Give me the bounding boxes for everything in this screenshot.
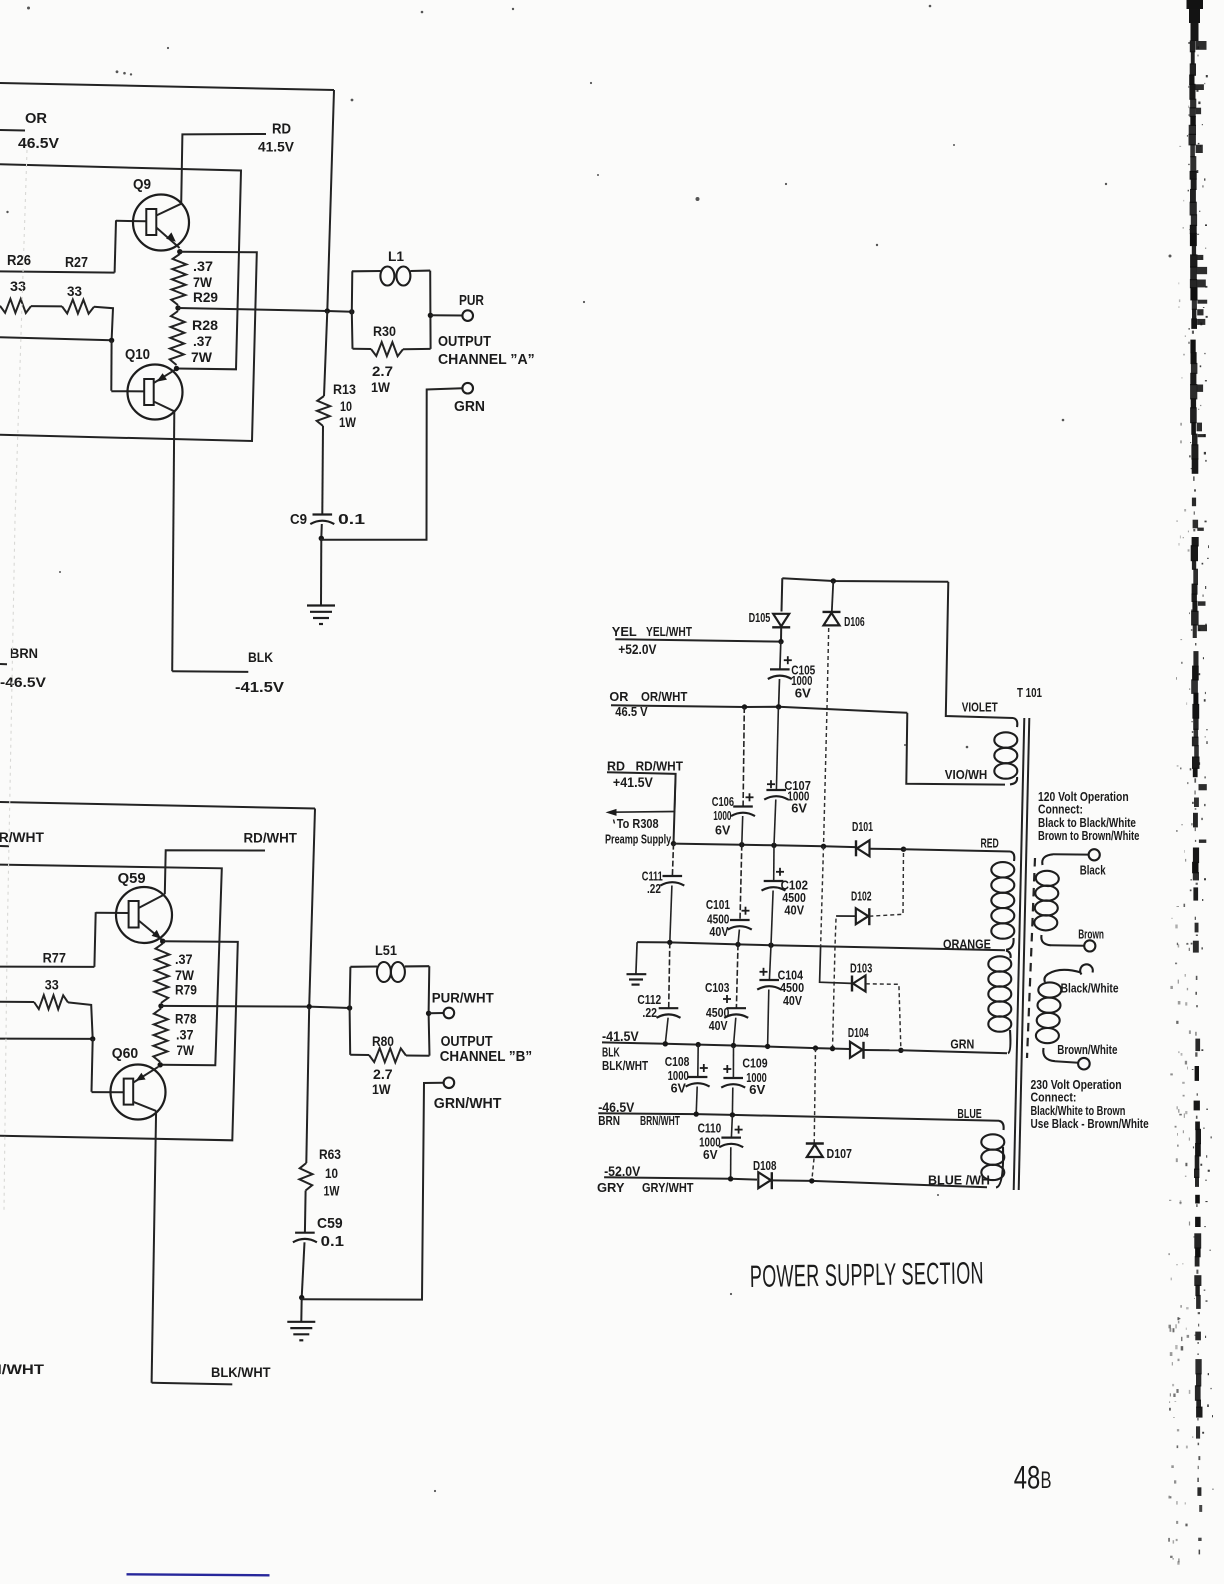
- wire: Q59 base vertical: [94, 912, 95, 967]
- svg-text:R79: R79: [175, 982, 197, 998]
- resistor R13 (10 1W): [317, 396, 331, 426]
- label 40V (C104): [783, 994, 802, 1008]
- svg-text:C101: C101: [706, 899, 730, 912]
- terminal Brown/White: [1078, 1058, 1090, 1070]
- svg-text:BLK/WHT: BLK/WHT: [211, 1364, 271, 1380]
- winding: red/orange secondary lower: [988, 951, 1011, 1054]
- scan edge band (right margin): [1168, 0, 1213, 1565]
- wire: C103 lower stem: [734, 1018, 736, 1046]
- label 6V (C108): [671, 1082, 687, 1096]
- wire: C101 lower stem: [738, 930, 739, 945]
- label .37 (R29): [193, 259, 213, 275]
- resistor R26: [0, 299, 31, 313]
- note: 120 volt operation line 1: [1038, 790, 1129, 804]
- svg-text:R78: R78: [175, 1010, 197, 1026]
- wire: Q59 emitter wrap-around to left edge: [0, 941, 238, 1140]
- svg-text:10: 10: [340, 399, 352, 415]
- wire: +41.5V bus: [674, 844, 856, 848]
- svg-text:Connect:: Connect:: [1031, 1089, 1077, 1104]
- node: D106 top junction: [831, 578, 836, 583]
- label D104: [848, 1027, 869, 1041]
- wire: RD/WHT feed: [165, 850, 265, 894]
- label L1: [388, 248, 404, 264]
- label -41.5V (ps): [602, 1029, 639, 1045]
- svg-text:T 101: T 101: [1017, 687, 1042, 700]
- label CHANNEL A: [438, 352, 535, 368]
- node: R79/R78 output junction: [158, 1003, 163, 1008]
- label BLK/WHT: [211, 1364, 271, 1380]
- label 7W (R79): [175, 967, 194, 983]
- wire: ground stem B: [300, 1298, 302, 1322]
- label 1000 (C109): [746, 1072, 767, 1086]
- svg-text:B: B: [1041, 1467, 1052, 1494]
- svg-text:-41.5V: -41.5V: [235, 680, 284, 696]
- svg-text:+41.5V: +41.5V: [613, 774, 653, 790]
- svg-text:Brown/White: Brown/White: [1057, 1044, 1117, 1057]
- wire: junction to Q60 base: [92, 1039, 93, 1092]
- label RD/WHT: [244, 830, 298, 845]
- svg-text:BRN: BRN: [598, 1115, 620, 1128]
- label 1W (R30): [371, 379, 390, 395]
- resistor R63 (10 1W): [299, 1163, 312, 1191]
- label 4500 (C102): [782, 892, 805, 905]
- label D101: [852, 821, 873, 835]
- svg-text:2.7: 2.7: [372, 364, 393, 379]
- label -46.5V (ps): [598, 1099, 634, 1115]
- svg-text:L1: L1: [388, 248, 404, 264]
- svg-text:R27: R27: [65, 253, 88, 270]
- node: -46.5/C108 junction: [694, 1111, 699, 1116]
- note: 230 volt operation line 3: [1031, 1105, 1126, 1119]
- svg-text:1W: 1W: [371, 379, 390, 395]
- svg-text:OR: OR: [609, 689, 628, 704]
- svg-text:C109: C109: [742, 1058, 767, 1071]
- label PUR/WHT: [432, 990, 495, 1005]
- wire: C109 upper stem: [732, 1046, 734, 1079]
- label 33 (R26 value): [10, 279, 26, 295]
- wire: D108 cathode to BLUE/WH lead: [773, 1180, 987, 1187]
- svg-text:VIOLET: VIOLET: [962, 702, 998, 715]
- label 1000 (C108): [668, 1070, 689, 1083]
- diode D108: [758, 1172, 771, 1188]
- label C107: [784, 778, 811, 793]
- svg-text:C59: C59: [317, 1216, 343, 1233]
- label C111: [642, 870, 663, 884]
- wire: channel B right boundary: [309, 809, 315, 1007]
- label C110: [698, 1123, 722, 1136]
- svg-text:D103: D103: [850, 962, 872, 976]
- label 1000 (C105): [791, 675, 812, 688]
- wire: C104 upper stem: [769, 945, 771, 980]
- node: -41.5/D107 junction: [813, 1045, 818, 1050]
- note: 120 volt operation line 2: [1038, 802, 1083, 816]
- svg-text:.37: .37: [193, 333, 212, 349]
- wire: C109 lower stem: [731, 1088, 733, 1115]
- wire: R77 to bias node: [68, 1002, 93, 1039]
- wire: feedback line to R28 junction: [0, 164, 241, 369]
- wire: C103 upper stem: [736, 944, 738, 1008]
- wire: OR/WHT tick: [0, 845, 9, 847]
- label +41.5V: [613, 774, 653, 790]
- svg-text:BRN: BRN: [10, 646, 38, 662]
- capacitor C112 (.22): [659, 1007, 679, 1009]
- wire: RED winding lead: [904, 849, 1011, 851]
- wire: Q9 emitter wrap-around to left edge: [0, 252, 257, 441]
- svg-text:7W: 7W: [193, 274, 212, 290]
- wire: OR lead-in tick (46.5V): [0, 129, 25, 132]
- label 1000 (C110): [699, 1136, 720, 1149]
- label 46.5V: [18, 135, 60, 152]
- wire: L51 left branch: [349, 967, 352, 1055]
- wire: preamp rail upper: [675, 774, 676, 812]
- svg-text:PUR: PUR: [459, 292, 484, 309]
- label OR/WHT (edge): [0, 829, 44, 845]
- svg-text:.37: .37: [193, 259, 213, 275]
- wire: D107 lower: [812, 1159, 814, 1181]
- svg-text:BRN/WHT: BRN/WHT: [0, 1362, 45, 1378]
- label Black: [1080, 864, 1107, 877]
- wire: C108 upper stem: [697, 1045, 699, 1077]
- svg-text:C112: C112: [637, 994, 661, 1007]
- svg-text:7W: 7W: [191, 349, 213, 365]
- wire: Q60 collector down: [152, 1111, 157, 1383]
- node: bus/C107 junction: [771, 843, 776, 848]
- inductor L1: [352, 267, 430, 286]
- resistor R29 (.37 7W): [171, 254, 186, 305]
- node: output line / L1 junction: [349, 309, 354, 314]
- svg-text:BLK: BLK: [602, 1046, 620, 1060]
- label 2.7 (R30): [372, 364, 393, 379]
- wire: D103 rail from D106 line: [820, 947, 851, 984]
- svg-text:OUTPUT: OUTPUT: [438, 332, 491, 349]
- label D106: [844, 616, 865, 630]
- capacitor C111 (.22): [663, 875, 683, 877]
- svg-text:Q59: Q59: [118, 871, 146, 887]
- svg-text:R77: R77: [43, 950, 66, 966]
- wire: C111 to ground bus: [670, 886, 672, 943]
- wire: -46.5V BRN bus to BLUE lead: [598, 1113, 999, 1121]
- svg-text:D106: D106: [844, 616, 865, 630]
- svg-text:6V: 6V: [703, 1148, 718, 1162]
- wire: C112 stem: [669, 942, 670, 1008]
- diode D104: [850, 1042, 863, 1058]
- label PUR: [459, 292, 484, 309]
- svg-text:BLK/WHT: BLK/WHT: [602, 1060, 648, 1073]
- label OUTPUT (A): [438, 332, 491, 349]
- terminal Black: [1089, 849, 1100, 860]
- capacitor C104 (4500 40V): [759, 979, 779, 981]
- label T 101: [1017, 687, 1042, 700]
- svg-text:1W: 1W: [372, 1081, 391, 1097]
- label YEL/WHT: [646, 625, 693, 639]
- wire: C107 lower stem: [774, 800, 776, 846]
- svg-text:RD: RD: [607, 758, 625, 773]
- svg-text:+52.0V: +52.0V: [618, 641, 657, 657]
- wire: junction to Q10 base: [110, 340, 112, 391]
- node: output terminal junction B: [426, 1011, 431, 1016]
- wire: C112 lower stem: [665, 1018, 668, 1044]
- node: Q9 emitter junction: [177, 249, 182, 254]
- svg-text:Preamp Supply: Preamp Supply: [605, 833, 672, 847]
- label D105: [749, 612, 771, 626]
- label 41.5V: [258, 138, 295, 154]
- wire: rail down to R63: [306, 1007, 309, 1163]
- ground (channel A): [307, 604, 335, 606]
- label Brown: [1078, 928, 1104, 942]
- diode D105: [773, 614, 789, 627]
- wire: Q10 collector down: [172, 411, 174, 671]
- polarity + (C102): [776, 871, 784, 873]
- label CHANNEL B: [440, 1048, 532, 1065]
- wire: D102 rail from -41.5V bus: [833, 916, 837, 1049]
- node: ground-bus/C101 junction: [735, 942, 740, 947]
- svg-text:Black/White: Black/White: [1061, 983, 1119, 996]
- svg-text:R63: R63: [319, 1146, 341, 1162]
- label C105: [791, 665, 815, 678]
- terminal PUR/WHT: [444, 1008, 455, 1019]
- label 1000 (C107): [787, 791, 809, 804]
- svg-text:2.7: 2.7: [373, 1066, 393, 1082]
- capacitor C59 (0.1): [295, 1232, 315, 1234]
- wire: -41.5V bus: [602, 1042, 850, 1049]
- note: 120 volt operation line 3: [1038, 817, 1136, 830]
- svg-text:Use Black - Brown/White: Use Black - Brown/White: [1031, 1117, 1150, 1132]
- wire: L1 right branch: [429, 271, 431, 349]
- svg-text:1W: 1W: [339, 414, 356, 430]
- node: -41.5/C108 junction: [696, 1042, 701, 1047]
- polarity + (C104): [760, 971, 768, 973]
- label RED: [981, 837, 999, 851]
- svg-text:41.5V: 41.5V: [258, 138, 295, 154]
- transistor Q60: [111, 1065, 166, 1120]
- transistor Q9: [133, 195, 189, 251]
- wire: Q9 base vertical: [115, 220, 116, 272]
- label BRN (ps): [598, 1115, 620, 1128]
- svg-text:VIO/WH: VIO/WH: [945, 767, 988, 782]
- label D108: [753, 1160, 776, 1173]
- svg-text:.37: .37: [175, 951, 193, 967]
- wire: D106 cathode from top line: [832, 581, 834, 612]
- winding: primary 2 (Black/White-Brown/White): [1036, 970, 1081, 1063]
- svg-text:46.5V: 46.5V: [18, 135, 60, 152]
- svg-text:6V: 6V: [715, 824, 731, 838]
- terminal Brown: [1084, 940, 1095, 951]
- svg-text:1W: 1W: [324, 1183, 340, 1199]
- label +52.0V: [618, 641, 657, 657]
- label GRY: [597, 1180, 625, 1195]
- wire: channel A top boundary: [0, 83, 334, 90]
- node: ground-bus/C111 junction: [667, 940, 672, 945]
- label C59: [317, 1216, 343, 1233]
- wire: feedback line to R78 junction: [0, 865, 222, 1066]
- node: bus/D106-rail junction: [821, 844, 826, 849]
- label 33 (R27 value): [67, 284, 82, 299]
- svg-text:OR/WHT: OR/WHT: [641, 690, 688, 705]
- wire: bias line from left edge: [0, 337, 112, 340]
- node: Q59 emitter junction: [160, 939, 165, 944]
- svg-text:RD: RD: [272, 120, 291, 137]
- wire: preamp supply arrow line: [611, 811, 675, 814]
- label -46.5V: [0, 676, 46, 691]
- capacitor C103 (4500 40V): [726, 1007, 746, 1009]
- wire: C107 upper stem: [776, 707, 778, 790]
- label 10 (R13): [340, 399, 352, 415]
- node: Q10 base junction: [109, 338, 114, 343]
- note: 230 volt operation line 1: [1031, 1078, 1122, 1092]
- svg-text:BLK: BLK: [248, 649, 273, 665]
- note: 120 volt operation line 4: [1038, 830, 1139, 844]
- capacitor C110 (1000 6V): [721, 1136, 741, 1138]
- wire: ground bus (ORANGE centre tap): [637, 942, 1005, 950]
- diode D101: [855, 840, 857, 856]
- label Q60: [112, 1046, 138, 1063]
- label BLUE /WH: [928, 1174, 990, 1188]
- diode D106: [823, 611, 841, 613]
- svg-text:33: 33: [10, 279, 26, 295]
- svg-text:BLUE /WH: BLUE /WH: [928, 1174, 990, 1188]
- label R78: [175, 1010, 197, 1026]
- node: YEL/C105 junction: [778, 639, 783, 644]
- svg-text:D107: D107: [827, 1147, 852, 1161]
- label OR/WHT (ps): [641, 690, 688, 705]
- arrow to R308 preamp supply: [606, 809, 617, 816]
- label R13: [333, 381, 356, 397]
- node: output line / supply rail junction: [325, 308, 330, 313]
- node: bus/C106 junction: [739, 842, 744, 847]
- svg-text:CHANNEL ”B”: CHANNEL ”B”: [440, 1048, 532, 1065]
- label 7W (R29): [193, 274, 212, 290]
- label Q9: [133, 176, 151, 193]
- winding: violet secondary: [994, 718, 1017, 784]
- svg-text:Q60: Q60: [112, 1046, 138, 1063]
- wire: L1 left branch: [351, 271, 354, 349]
- wire: OR line to VIO/WH lead: [906, 713, 1005, 785]
- jumper dashed line (120/230V strap): [1027, 858, 1035, 1058]
- node: output line / supply rail junction B: [307, 1004, 312, 1009]
- svg-text:Black: Black: [1080, 864, 1107, 877]
- polarity + (C110): [735, 1129, 743, 1131]
- svg-text:To R308: To R308: [617, 818, 659, 832]
- diode D102: [856, 908, 869, 924]
- wire: Q9 base network from left edge: [0, 271, 115, 272]
- ground (channel B): [287, 1321, 315, 1323]
- svg-text:OUTPUT: OUTPUT: [441, 1032, 493, 1049]
- node: -52/C110 junction: [728, 1176, 733, 1181]
- scan crease (faint): [4, 150, 27, 1210]
- node: -41.5/C103-C109 junction: [731, 1043, 736, 1048]
- wire: R26-R27 link: [31, 305, 62, 307]
- svg-text:40V: 40V: [784, 903, 804, 918]
- transistor Q10: [128, 365, 183, 420]
- wire: Q59 base lead: [96, 912, 129, 914]
- wire: GRN/WHT return: [302, 1083, 444, 1300]
- wire: preamp rail to C111: [672, 844, 673, 876]
- wire: D102 cathode up to RED: [869, 849, 903, 916]
- node: +41.5V bus left end: [671, 841, 676, 846]
- label 0.1 (C59): [321, 1234, 345, 1250]
- label -52.0V (ps): [604, 1163, 640, 1179]
- title POWER SUPPLY SECTION: [750, 1256, 985, 1294]
- label 1W (R80): [372, 1081, 391, 1097]
- svg-text:33: 33: [45, 977, 59, 993]
- label 6V (C109): [749, 1082, 766, 1097]
- svg-text:GRN/WHT: GRN/WHT: [434, 1096, 502, 1112]
- wire: top line down to violet winding: [946, 582, 1013, 718]
- label BRN: [10, 646, 38, 662]
- svg-text:CHANNEL ”A”: CHANNEL ”A”: [438, 352, 535, 368]
- svg-text:.37: .37: [176, 1027, 193, 1043]
- label RD: [272, 120, 291, 137]
- ground (power supply): [627, 974, 647, 984]
- label 10 (R63): [325, 1165, 338, 1181]
- svg-text:C110: C110: [698, 1123, 722, 1136]
- svg-text:7W: 7W: [177, 1042, 195, 1058]
- svg-text:ORANGE: ORANGE: [943, 938, 991, 952]
- label To R308: [617, 818, 659, 832]
- svg-text:Connect:: Connect:: [1038, 802, 1083, 816]
- svg-text:-46.5V: -46.5V: [0, 676, 46, 691]
- svg-text:BRN/WHT: BRN/WHT: [640, 1114, 680, 1128]
- label -41.5V: [235, 680, 284, 696]
- wire: PUR terminal lead: [430, 314, 462, 316]
- svg-text:YEL/WHT: YEL/WHT: [646, 625, 693, 639]
- wire: D106 rail lower (to D103): [821, 846, 824, 946]
- label BLK: [248, 649, 273, 665]
- svg-text:R26: R26: [7, 251, 31, 268]
- svg-text:Q10: Q10: [125, 345, 150, 362]
- label .22 (C112): [642, 1007, 657, 1020]
- svg-text:D102: D102: [851, 890, 872, 904]
- label R77: [43, 950, 66, 966]
- wire: L51 right branch: [428, 966, 431, 1055]
- wire: channel B output line: [161, 1006, 350, 1008]
- svg-text:YEL: YEL: [612, 624, 637, 639]
- label GRN/WHT: [434, 1096, 502, 1112]
- label 7W (R28): [191, 349, 213, 365]
- node: R78/Q60 emitter junction: [158, 1062, 163, 1067]
- label R26: [7, 251, 31, 268]
- label BLK/WHT (ps): [602, 1060, 648, 1073]
- label Q10: [125, 345, 150, 362]
- polarity + (C108): [700, 1067, 708, 1069]
- label BRN/WHT (edge): [0, 1362, 45, 1378]
- svg-text:7W: 7W: [175, 967, 194, 983]
- label 2.7 (R80): [373, 1066, 393, 1082]
- svg-text:R28: R28: [192, 317, 218, 333]
- wire: BLK -41.5V lead: [172, 670, 248, 673]
- label L51: [375, 942, 397, 958]
- wire: BRN lead tick: [0, 663, 7, 665]
- capacitor C105 (1000 6V): [770, 668, 790, 670]
- svg-text:C9: C9: [290, 511, 307, 528]
- svg-text:4500: 4500: [780, 981, 805, 995]
- svg-text:GRN: GRN: [950, 1037, 974, 1052]
- node: output line / L51 junction: [347, 1005, 352, 1010]
- terminal GRN: [462, 383, 473, 394]
- svg-text:D101: D101: [852, 821, 873, 835]
- note: 230 volt operation line 4: [1031, 1117, 1150, 1132]
- label C106: [712, 796, 734, 810]
- wire: C9 to ground node: [320, 524, 323, 538]
- svg-text:Q9: Q9: [133, 176, 151, 193]
- wire: C106 upper stem: [743, 707, 744, 807]
- wire: Q9 base lead: [116, 220, 146, 223]
- label 40V (C101): [709, 925, 728, 939]
- node: Q60 base junction: [90, 1036, 95, 1041]
- label .37 (R79): [175, 951, 193, 967]
- wire: C105 to OR line: [778, 679, 781, 707]
- node: OR/C107 junction: [776, 704, 781, 709]
